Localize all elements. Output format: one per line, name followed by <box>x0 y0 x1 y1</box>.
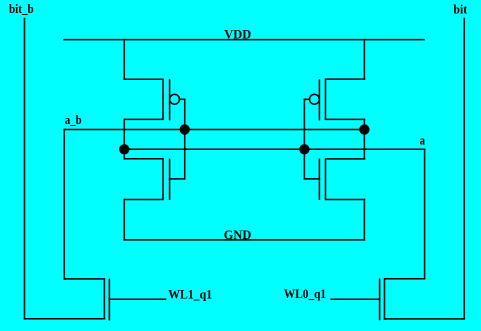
junction node on a at left inverter output <box>119 144 129 154</box>
wire right inverter output vertical <box>363 119 365 158</box>
transistor P2 (right PMOS) <box>304 79 364 120</box>
svg-text:VDD: VDD <box>224 27 251 42</box>
wire N1 source to GND <box>123 200 125 240</box>
transistor N2 (right NMOS) <box>304 159 364 200</box>
svg-text:bit: bit <box>453 1 467 16</box>
wire a_b down to access N3 <box>63 130 65 279</box>
wire VDD to P1 source <box>123 40 125 80</box>
wire a down to access N4 <box>424 149 426 278</box>
GND rail <box>124 239 364 241</box>
VDD rail <box>64 39 424 41</box>
wire N2 source to GND <box>363 200 365 240</box>
wire bit vertical <box>463 19 465 319</box>
junction node on a at right gate <box>299 144 309 154</box>
svg-text:bit_b: bit_b <box>9 1 34 16</box>
wire gate of left pair (a_b) vertical <box>184 99 186 179</box>
transistor P1 (left PMOS) <box>124 79 184 119</box>
svg-text:WL0_q1: WL0_q1 <box>284 286 326 301</box>
junction node on a_b at right inverter output <box>359 124 369 134</box>
junction node on a_b at left gate <box>180 124 190 134</box>
wire left inverter output vertical <box>123 119 125 158</box>
net a_b horizontal line <box>64 129 364 131</box>
transistor N3 (left access, WL1) <box>64 279 165 320</box>
wire N3 to bit_b <box>25 318 105 320</box>
svg-text:a_b: a_b <box>65 112 82 127</box>
svg-text:GND: GND <box>224 227 252 242</box>
transistor N1 (left NMOS) <box>124 159 184 200</box>
wire bit_b vertical <box>24 19 26 319</box>
wire VDD to P2 source <box>363 40 365 80</box>
net a horizontal line <box>124 148 424 150</box>
transistor N4 (right access, WL0) <box>331 279 425 320</box>
svg-text:WL1_q1: WL1_q1 <box>168 286 212 301</box>
wire gate of right pair (a) vertical <box>303 99 305 179</box>
svg-text:a: a <box>420 132 426 147</box>
wire N4 to bit <box>385 318 465 320</box>
